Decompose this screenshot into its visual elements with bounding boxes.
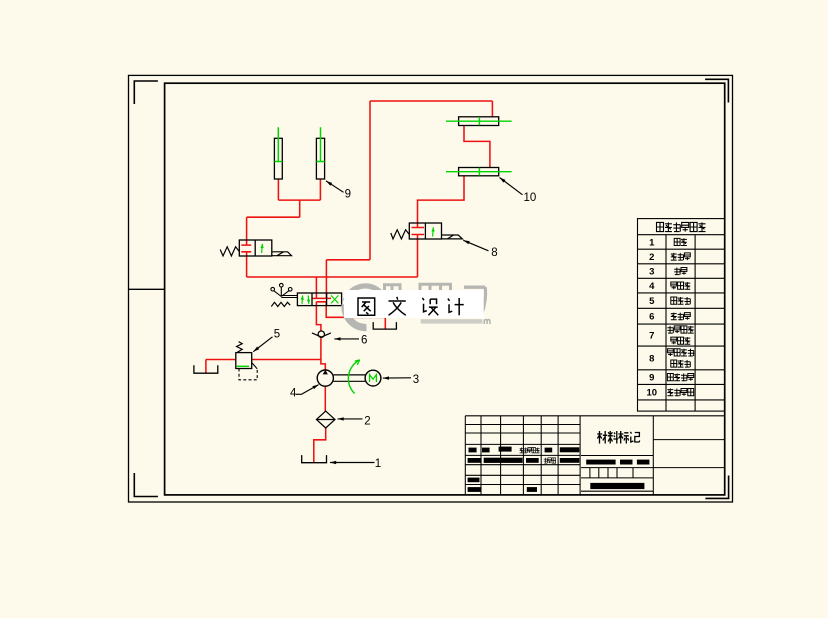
- svg-text:7: 7: [649, 331, 654, 342]
- svg-text:5: 5: [274, 329, 280, 341]
- svg-text:8: 8: [491, 247, 497, 259]
- svg-text:5: 5: [649, 296, 655, 307]
- svg-text:6: 6: [649, 312, 654, 323]
- svg-text:2: 2: [364, 415, 370, 427]
- svg-text:9: 9: [345, 189, 351, 201]
- svg-text:10: 10: [646, 388, 657, 399]
- svg-text:1: 1: [649, 237, 655, 248]
- svg-text:8: 8: [649, 353, 654, 364]
- svg-text:3: 3: [649, 266, 654, 277]
- svg-text:10: 10: [524, 192, 537, 204]
- svg-text:1: 1: [375, 458, 381, 470]
- svg-text:4: 4: [290, 387, 297, 399]
- svg-text:3: 3: [413, 374, 419, 386]
- svg-text:6: 6: [361, 335, 367, 347]
- svg-text:2: 2: [649, 252, 654, 263]
- svg-text:4: 4: [649, 281, 655, 292]
- svg-text:9: 9: [649, 373, 654, 384]
